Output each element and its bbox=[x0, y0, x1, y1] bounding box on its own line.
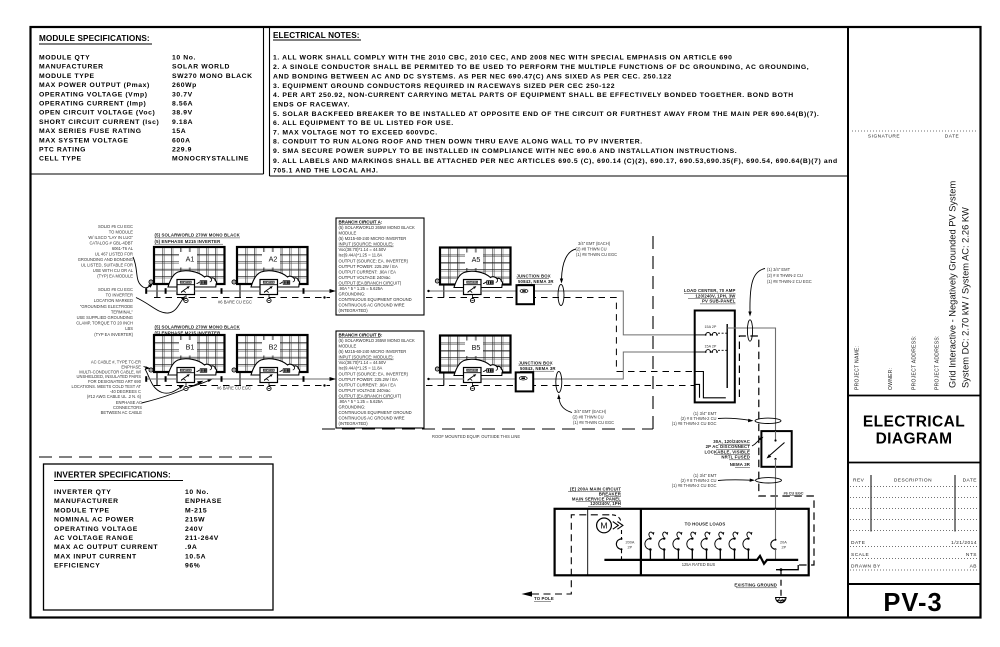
svg-text:(5) SOLARWORLD 270W MONO BLACK: (5) SOLARWORLD 270W MONO BLACK bbox=[155, 324, 241, 329]
grounding lug A1 bbox=[149, 280, 153, 284]
svg-text:10 No.: 10 No. bbox=[172, 55, 196, 62]
svg-text:EXISTING GROUND: EXISTING GROUND bbox=[734, 583, 777, 588]
cable end cap row B bbox=[145, 376, 147, 382]
load center PV sub-panel box bbox=[695, 311, 735, 403]
svg-text:ROOF MOUNTED EQUIP. OUTSIDE TH: ROOF MOUNTED EQUIP. OUTSIDE THIS LINE bbox=[432, 434, 520, 439]
leader to A1 module lug bbox=[133, 257, 150, 288]
svg-text:GROUNDING:: GROUNDING: bbox=[339, 292, 366, 297]
load center bus bbox=[726, 324, 728, 388]
solar module B1 bbox=[154, 335, 225, 375]
svg-text:B5: B5 bbox=[472, 343, 481, 352]
conduit ellipse at load center output bbox=[747, 320, 752, 341]
svg-text:5. SOLAR BACKFEED BREAKER TO B: 5. SOLAR BACKFEED BREAKER TO BE INSTALLE… bbox=[273, 111, 819, 118]
svg-text:UL LISTED, SUITABLE FOR: UL LISTED, SUITABLE FOR bbox=[81, 263, 133, 268]
svg-text:TO MODULE: TO MODULE bbox=[109, 230, 134, 235]
svg-text:ELECTRICAL NOTES:: ELECTRICAL NOTES: bbox=[273, 31, 360, 40]
svg-text:38.9V: 38.9V bbox=[172, 110, 193, 117]
svg-text:GROUNDING AND BONDING: GROUNDING AND BONDING bbox=[78, 257, 133, 262]
utility meter M bbox=[597, 518, 612, 533]
microinverter under A5 bbox=[464, 280, 494, 295]
svg-text:(1) #8 THWN-2 CU EGC: (1) #8 THWN-2 CU EGC bbox=[672, 483, 717, 488]
svg-text:MODULE SPECIFICATIONS:: MODULE SPECIFICATIONS: bbox=[39, 34, 150, 43]
svg-text:OUTPUT CURRENT: .90A / EA: OUTPUT CURRENT: .90A / EA bbox=[339, 269, 397, 274]
svg-text:OUTPUT (SOURCE: EA. INVERTER): OUTPUT (SOURCE: EA. INVERTER) bbox=[339, 371, 409, 376]
svg-text:JUNCTION BOX: JUNCTION BOX bbox=[519, 360, 553, 365]
svg-text:NTS: NTS bbox=[966, 552, 977, 558]
svg-text:B2: B2 bbox=[269, 343, 278, 352]
svg-text:OWNER:: OWNER: bbox=[888, 368, 894, 390]
svg-text:10 No.: 10 No. bbox=[185, 489, 209, 496]
svg-text:TO INVERTER: TO INVERTER bbox=[106, 293, 133, 298]
svg-text:8.56A: 8.56A bbox=[172, 101, 193, 108]
svg-text:CONTINUOUS AC GROUND WIRE: CONTINUOUS AC GROUND WIRE bbox=[339, 303, 405, 308]
svg-text:9. ALL LABELS AND MARKINGS SHA: 9. ALL LABELS AND MARKINGS SHALL BE ATTA… bbox=[273, 158, 838, 165]
svg-text:TO POLE: TO POLE bbox=[534, 596, 554, 601]
svg-text:229.9: 229.9 bbox=[172, 147, 192, 154]
svg-text:BETWEEN AC CABLE: BETWEEN AC CABLE bbox=[101, 410, 143, 415]
svg-text:(5) M215-60-240 MICRO INVERTER: (5) M215-60-240 MICRO INVERTER bbox=[339, 349, 407, 354]
svg-text:4. PER ART 250.92, NON-CURRENT: 4. PER ART 250.92, NON-CURRENT CARRYING … bbox=[273, 92, 794, 99]
svg-text:OUTPUT (SOURCE: EA. INVERTER): OUTPUT (SOURCE: EA. INVERTER) bbox=[339, 258, 409, 263]
svg-text:600A: 600A bbox=[172, 137, 191, 144]
row B bare CU EGC dashed wire bbox=[154, 385, 695, 387]
svg-text:MANUFACTURER: MANUFACTURER bbox=[54, 498, 119, 505]
solar module A5 bbox=[440, 248, 511, 288]
svg-text:AC VOLTAGE RANGE: AC VOLTAGE RANGE bbox=[54, 535, 134, 542]
house load breaker 2 bbox=[663, 550, 665, 560]
module spec box divider bbox=[263, 27, 265, 174]
house load breaker 8 bbox=[747, 550, 749, 560]
leader to B row connector 2 bbox=[190, 381, 209, 387]
junction box B bbox=[516, 372, 534, 391]
ground circle B1 inverter bbox=[184, 386, 188, 390]
svg-text:DRAWN BY: DRAWN BY bbox=[851, 564, 881, 570]
svg-text:3/4" EMT (EACH): 3/4" EMT (EACH) bbox=[578, 241, 611, 246]
svg-text:MODULE QTY: MODULE QTY bbox=[39, 55, 90, 62]
solar module A2 bbox=[237, 247, 308, 287]
svg-text:MONOCRYSTALLINE: MONOCRYSTALLINE bbox=[172, 156, 249, 163]
ground circle B5 inverter bbox=[470, 386, 474, 390]
svg-text:OUTPUT CURRENT: .90A / EA: OUTPUT CURRENT: .90A / EA bbox=[339, 382, 397, 387]
svg-text:MAX AC OUTPUT CURRENT: MAX AC OUTPUT CURRENT bbox=[54, 544, 158, 551]
svg-text:SW270 MONO BLACK: SW270 MONO BLACK bbox=[172, 73, 253, 80]
svg-text:DESCRIPTION: DESCRIPTION bbox=[894, 478, 932, 484]
svg-text:OUTPUT VOLTAGE 240Vac: OUTPUT VOLTAGE 240Vac bbox=[339, 275, 391, 280]
module frame ground wire bbox=[156, 372, 158, 386]
microinverter under B5 bbox=[464, 368, 494, 383]
svg-text:CATALOG # GBL-4DBT: CATALOG # GBL-4DBT bbox=[89, 241, 133, 246]
svg-text:.9A: .9A bbox=[185, 544, 197, 551]
svg-text:OUTPUT POWER: 225.2W / EA: OUTPUT POWER: 225.2W / EA bbox=[339, 377, 399, 382]
svg-text:MAX POWER OUTPUT (Pmax): MAX POWER OUTPUT (Pmax) bbox=[39, 82, 150, 89]
roof boundary dashed line right segment bbox=[322, 428, 653, 430]
svg-text:MAX INPUT CURRENT: MAX INPUT CURRENT bbox=[54, 553, 137, 560]
svg-text:PV-3: PV-3 bbox=[883, 589, 942, 617]
house load breaker 7 bbox=[734, 550, 736, 560]
svg-text:(2) # 8 THWN-2 CU: (2) # 8 THWN-2 CU bbox=[767, 273, 803, 278]
TO POLE arrow bbox=[522, 591, 533, 596]
branch circuit A spec box bbox=[336, 218, 424, 315]
svg-text:15A: 15A bbox=[172, 128, 186, 135]
title block left border bbox=[847, 27, 849, 618]
svg-text:DATE: DATE bbox=[851, 540, 865, 546]
solar module A1 bbox=[154, 247, 225, 287]
svg-text:(5) ENPHASE M215 INVERTER: (5) ENPHASE M215 INVERTER bbox=[155, 239, 222, 244]
module frame ground wire bbox=[443, 285, 445, 298]
svg-text:(TYP EA INVERTER): (TYP EA INVERTER) bbox=[94, 332, 133, 337]
svg-text:SCALE: SCALE bbox=[851, 552, 869, 558]
svg-text:(5) SOLARWORLD 270W MONO BLACK: (5) SOLARWORLD 270W MONO BLACK bbox=[155, 233, 241, 238]
svg-text:(INTEGRATED): (INTEGRATED) bbox=[339, 308, 369, 313]
grounding lug A2 bbox=[232, 280, 236, 284]
svg-text:MODULE TYPE: MODULE TYPE bbox=[54, 507, 110, 514]
svg-text:LOCATION MARKED: LOCATION MARKED bbox=[94, 298, 133, 303]
svg-text:15A 2P: 15A 2P bbox=[705, 325, 717, 329]
svg-text:15A 2P: 15A 2P bbox=[705, 344, 717, 348]
house load breaker 4 bbox=[691, 550, 693, 560]
row A bare CU EGC dashed wire bbox=[154, 298, 695, 372]
svg-text:LOAD CENTER, 70 AMP: LOAD CENTER, 70 AMP bbox=[684, 288, 736, 293]
grounding lug B5 bbox=[435, 367, 439, 371]
svg-text:AND BONDING BETWEEN AC AND DC: AND BONDING BETWEEN AC AND DC SYSTEMS. A… bbox=[273, 73, 672, 80]
svg-text:9. SMA SECURE POWER SUPPLY TO: 9. SMA SECURE POWER SUPPLY TO BE INSTALL… bbox=[273, 148, 737, 155]
svg-text:7. MAX VOLTAGE NOT TO EXCEED 6: 7. MAX VOLTAGE NOT TO EXCEED 600VDC. bbox=[273, 129, 438, 136]
svg-text:A5: A5 bbox=[472, 255, 481, 264]
svg-text:(1) #8 THWN CU EGC: (1) #8 THWN CU EGC bbox=[573, 420, 614, 425]
house load breaker 5 bbox=[706, 550, 708, 560]
connector bars row A bbox=[165, 288, 167, 294]
svg-text:OUTPUT (EA BRANCH CIRCUIT): OUTPUT (EA BRANCH CIRCUIT) bbox=[339, 394, 402, 399]
svg-text:System DC: 2.70 kW / System AC: System DC: 2.70 kW / System AC: 2.26 KW bbox=[961, 207, 971, 388]
svg-text:USE SUPPLIED GROUNDING: USE SUPPLIED GROUNDING bbox=[77, 315, 133, 320]
svg-text:BRANCH CIRCUIT A:: BRANCH CIRCUIT A: bbox=[339, 219, 383, 224]
svg-text:A2: A2 bbox=[269, 255, 278, 264]
svg-text:MAX SYSTEM VOLTAGE: MAX SYSTEM VOLTAGE bbox=[39, 137, 128, 144]
ground electrode symbol bbox=[776, 598, 786, 603]
svg-text:JUNCTION BOX: JUNCTION BOX bbox=[517, 273, 551, 278]
house load breaker 3 bbox=[677, 550, 679, 560]
svg-text:(1) #8 THWN-2 CU EGC: (1) #8 THWN-2 CU EGC bbox=[672, 421, 717, 426]
svg-text:Voc(38.70)*1.14 = 44.50V: Voc(38.70)*1.14 = 44.50V bbox=[339, 360, 387, 365]
svg-text:50843, NEMA 3R: 50843, NEMA 3R bbox=[518, 279, 554, 284]
leader to B row connector 1 bbox=[142, 384, 199, 404]
svg-text:(#12 AWG CABLE UL .2 N. 6): (#12 AWG CABLE UL .2 N. 6) bbox=[87, 394, 142, 399]
svg-text:10.5A: 10.5A bbox=[185, 553, 206, 560]
svg-text:SIGNATURE: SIGNATURE bbox=[868, 134, 900, 140]
svg-text:CONTINUOUS EQUIPMENT GROUND: CONTINUOUS EQUIPMENT GROUND bbox=[339, 297, 412, 302]
ground circle B2 inverter bbox=[267, 386, 271, 390]
leader to B1 module lug bbox=[144, 366, 147, 369]
svg-text:Grid Interactive - Negatively: Grid Interactive - Negatively Grounded P… bbox=[948, 181, 958, 388]
module frame ground wire bbox=[156, 284, 158, 298]
svg-text:OPERATING VOLTAGE: OPERATING VOLTAGE bbox=[54, 526, 138, 533]
microinverter under A2 bbox=[260, 280, 290, 295]
svg-text:INVERTER QTY: INVERTER QTY bbox=[54, 489, 111, 496]
house load breaker 6 bbox=[719, 550, 721, 560]
svg-text:MODULE TYPE: MODULE TYPE bbox=[39, 73, 95, 80]
svg-text:CELL TYPE: CELL TYPE bbox=[39, 156, 82, 163]
svg-text:ELECTRICAL: ELECTRICAL bbox=[863, 414, 965, 431]
meter to breaker wire bbox=[621, 530, 623, 539]
grounding lug B1 bbox=[149, 368, 153, 372]
AC output wire from load center bbox=[727, 328, 775, 431]
svg-text:ENDS OF RACEWAY.: ENDS OF RACEWAY. bbox=[273, 102, 350, 109]
svg-text:96%: 96% bbox=[185, 563, 200, 570]
svg-text:215W: 215W bbox=[185, 517, 205, 524]
svg-text:DATE: DATE bbox=[945, 134, 959, 140]
svg-text:Voc(38.70)*1.14 = 44.50V: Voc(38.70)*1.14 = 44.50V bbox=[339, 247, 387, 252]
svg-text:120/240V, 1PH: 120/240V, 1PH bbox=[590, 501, 621, 506]
svg-text:20A: 20A bbox=[780, 541, 787, 545]
ground circle A2 inverter bbox=[267, 298, 271, 302]
svg-text:PTC RATING: PTC RATING bbox=[39, 147, 86, 154]
svg-text:CONTINUOUS AC GROUND WIRE: CONTINUOUS AC GROUND WIRE bbox=[339, 416, 405, 421]
svg-text:#6 CU EGC: #6 CU EGC bbox=[784, 492, 804, 496]
leader to A1 inverter ground bbox=[136, 298, 183, 314]
microinverter under B2 bbox=[260, 368, 290, 383]
title block divider bbox=[848, 395, 981, 397]
svg-text:MAX SERIES FUSE RATING: MAX SERIES FUSE RATING bbox=[39, 128, 142, 135]
roof boundary vertical dashed line bbox=[652, 236, 654, 429]
svg-text:PROJECT NAME:: PROJECT NAME: bbox=[855, 346, 861, 390]
svg-text:A1: A1 bbox=[186, 255, 195, 264]
svg-text:PROJECT ADDRESS:: PROJECT ADDRESS: bbox=[912, 335, 918, 390]
svg-text:W/ ILSCO "LAY IN LUG": W/ ILSCO "LAY IN LUG" bbox=[88, 235, 133, 240]
row B AC branch cable bbox=[147, 352, 695, 379]
load center ground wires bbox=[695, 372, 726, 398]
ground wire to electrode bbox=[780, 570, 782, 597]
svg-text:OPERATING VOLTAGE (Vmp): OPERATING VOLTAGE (Vmp) bbox=[39, 91, 148, 98]
svg-text:(1) #8 THWN-2 CU EGC: (1) #8 THWN-2 CU EGC bbox=[767, 279, 812, 284]
svg-text:(1) 3/4" EMT: (1) 3/4" EMT bbox=[767, 267, 791, 272]
svg-text:(5) SOLARWORLD 265W MONO BLACK: (5) SOLARWORLD 265W MONO BLACK bbox=[339, 225, 416, 230]
cable end cap row A bbox=[145, 288, 147, 294]
svg-text:30.7V: 30.7V bbox=[172, 91, 193, 98]
svg-text:3/4" EMT (EACH): 3/4" EMT (EACH) bbox=[574, 409, 607, 414]
20A 2P PV breaker bbox=[775, 509, 777, 540]
microinverter under A1 bbox=[177, 280, 207, 295]
svg-text:OUTPUT VOLTAGE 240Vac: OUTPUT VOLTAGE 240Vac bbox=[339, 388, 391, 393]
svg-text:2P: 2P bbox=[628, 545, 633, 549]
svg-text:PV SUB-PANEL: PV SUB-PANEL bbox=[702, 299, 736, 304]
svg-text:B1: B1 bbox=[186, 343, 195, 352]
svg-text:(5) SOLARWORLD 265W MONO BLACK: (5) SOLARWORLD 265W MONO BLACK bbox=[339, 338, 416, 343]
svg-text:OUTPUT (EA BRANCH CIRCUIT): OUTPUT (EA BRANCH CIRCUIT) bbox=[339, 281, 402, 286]
utility service dashed wire from pole bbox=[532, 515, 612, 594]
svg-text:DATE: DATE bbox=[963, 478, 977, 484]
svg-text:AB: AB bbox=[970, 564, 977, 570]
svg-text:SOLAR WORLD: SOLAR WORLD bbox=[172, 64, 230, 71]
grounding lug B2 bbox=[232, 368, 236, 372]
svg-text:OPEN CIRCUIT VOLTAGE (Voc): OPEN CIRCUIT VOLTAGE (Voc) bbox=[39, 110, 155, 117]
conduit ellipse below disconnect bbox=[756, 478, 782, 483]
svg-text:.90A * 5 * 1.25 = 5.625A: .90A * 5 * 1.25 = 5.625A bbox=[339, 286, 384, 291]
svg-text:EFFICIENCY: EFFICIENCY bbox=[54, 563, 100, 570]
svg-text:(1) #8 THWN CU EGC: (1) #8 THWN CU EGC bbox=[576, 252, 617, 257]
svg-text:705.1 AND THE LOCAL AHJ.: 705.1 AND THE LOCAL AHJ. bbox=[273, 167, 379, 174]
svg-text:LBS: LBS bbox=[125, 326, 133, 331]
svg-text:9.18A: 9.18A bbox=[172, 119, 193, 126]
svg-text:3. EQUIPMENT GROUND CONDUCTORS: 3. EQUIPMENT GROUND CONDUCTORS REQUIRED … bbox=[273, 83, 615, 90]
125A rated bus bbox=[604, 556, 798, 564]
conduit ellipse row A bbox=[558, 285, 564, 306]
svg-text:MODULE: MODULE bbox=[339, 231, 357, 236]
solar module B5 bbox=[440, 336, 511, 376]
AC disconnect box bbox=[761, 431, 791, 467]
svg-text:(2) #8 THWN CU: (2) #8 THWN CU bbox=[573, 415, 604, 420]
module frame ground wire bbox=[443, 373, 445, 386]
svg-text:200A: 200A bbox=[626, 541, 635, 545]
svg-text:NOMINAL AC POWER: NOMINAL AC POWER bbox=[54, 517, 134, 524]
svg-text:125A RATED BUS: 125A RATED BUS bbox=[682, 562, 716, 567]
microinverter under B1 bbox=[177, 368, 207, 383]
svg-text:GROUNDING:: GROUNDING: bbox=[339, 405, 366, 410]
svg-text:SOLID #8 CU EGC: SOLID #8 CU EGC bbox=[98, 287, 133, 292]
ground circle A1 inverter bbox=[184, 298, 188, 302]
roof boundary dashed line left segment bbox=[39, 456, 277, 458]
svg-text:OPERATING CURRENT (Imp): OPERATING CURRENT (Imp) bbox=[39, 101, 146, 108]
module frame ground wire bbox=[239, 372, 241, 386]
conduit ellipse above disconnect bbox=[755, 418, 781, 423]
svg-text:6. ALL EQUIPMENT TO BE UL LIST: 6. ALL EQUIPMENT TO BE UL LISTED FOR USE… bbox=[273, 120, 454, 127]
electrical notes box border bbox=[269, 27, 271, 176]
svg-text:#6 BARE CU EGC: #6 BARE CU EGC bbox=[217, 386, 251, 391]
svg-text:(TYP) EA MODULE: (TYP) EA MODULE bbox=[97, 274, 133, 279]
revision table bbox=[870, 475, 872, 532]
svg-text:OUTPUT POWER: 225.2W / EA: OUTPUT POWER: 225.2W / EA bbox=[339, 264, 399, 269]
branch circuit B spec box bbox=[336, 331, 424, 428]
svg-text:INPUT (SOURCE: MODULE):: INPUT (SOURCE: MODULE): bbox=[339, 355, 394, 360]
svg-text:ENPHASE: ENPHASE bbox=[185, 498, 222, 505]
svg-text:CLAMP, TORQUE TO 20 INCH: CLAMP, TORQUE TO 20 INCH bbox=[76, 321, 133, 326]
EGC dashed from load center to main panel bbox=[739, 336, 814, 565]
svg-text:211-264V: 211-264V bbox=[185, 535, 219, 542]
svg-text:8. CONDUIT TO RUN ALONG ROOF A: 8. CONDUIT TO RUN ALONG ROOF AND THEN DO… bbox=[273, 139, 643, 146]
svg-text:260Wp: 260Wp bbox=[172, 82, 197, 89]
svg-text:6061-T6 AL: 6061-T6 AL bbox=[112, 246, 134, 251]
svg-text:M-215: M-215 bbox=[185, 507, 207, 514]
leader to B1 inverter ground bbox=[145, 369, 180, 393]
svg-text:Isc(9.44A)*1.25 = 11.8A: Isc(9.44A)*1.25 = 11.8A bbox=[339, 366, 383, 371]
house load breaker 1 bbox=[649, 550, 651, 560]
svg-text:NRTL FUSED: NRTL FUSED bbox=[721, 455, 750, 460]
svg-text:"GROUNDING ELECTRODE: "GROUNDING ELECTRODE bbox=[80, 304, 133, 309]
svg-text:CONTINUOUS EQUIPMENT GROUND: CONTINUOUS EQUIPMENT GROUND bbox=[339, 410, 412, 415]
ground circle A5 inverter bbox=[470, 298, 474, 302]
svg-text:240V: 240V bbox=[185, 526, 203, 533]
svg-text:MODULE: MODULE bbox=[339, 344, 357, 349]
svg-text:(5) M215-60-240 MICRO INVERTER: (5) M215-60-240 MICRO INVERTER bbox=[339, 236, 407, 241]
svg-text:TERMINAL": TERMINAL" bbox=[111, 309, 134, 314]
svg-text:INPUT (SOURCE: MODULE):: INPUT (SOURCE: MODULE): bbox=[339, 242, 394, 247]
grounding lug A5 bbox=[435, 279, 439, 283]
module frame ground wire bbox=[239, 284, 241, 298]
svg-text:MANUFACTURER: MANUFACTURER bbox=[39, 64, 104, 71]
svg-text:2P: 2P bbox=[782, 545, 787, 549]
row A AC branch cable bbox=[147, 291, 695, 335]
solar module B2 bbox=[237, 335, 308, 375]
svg-text:(INTEGRATED): (INTEGRATED) bbox=[339, 421, 369, 426]
inverter specifications box bbox=[44, 464, 274, 610]
svg-text:(2) #8 THWN CU: (2) #8 THWN CU bbox=[576, 246, 607, 251]
svg-text:SOLID #6 CU EGC: SOLID #6 CU EGC bbox=[98, 224, 133, 229]
main service panel box bbox=[555, 509, 809, 576]
svg-text:NEMA 3R: NEMA 3R bbox=[730, 462, 751, 467]
signature dotted line bbox=[852, 130, 977, 132]
svg-text:PROJECT ADDRESS:: PROJECT ADDRESS: bbox=[935, 335, 941, 390]
svg-text:Isc(9.44A)*1.25 = 11.8A: Isc(9.44A)*1.25 = 11.8A bbox=[339, 253, 383, 258]
svg-text:SHORT CIRCUIT CURRENT (Isc): SHORT CIRCUIT CURRENT (Isc) bbox=[39, 119, 159, 126]
svg-text:DIAGRAM: DIAGRAM bbox=[876, 431, 953, 448]
svg-text:M: M bbox=[600, 520, 607, 530]
svg-text:2. A SINGLE CONDUCTOR SHALL BE: 2. A SINGLE CONDUCTOR SHALL BE PERMITED … bbox=[273, 64, 809, 71]
svg-text:TO HOUSE LOADS: TO HOUSE LOADS bbox=[685, 522, 726, 527]
svg-text:UL 467 LISTED FOR: UL 467 LISTED FOR bbox=[95, 252, 133, 257]
200A 2P main breaker bbox=[616, 539, 621, 549]
svg-text:REV: REV bbox=[853, 478, 865, 484]
svg-text:#6 BARE CU EGC: #6 BARE CU EGC bbox=[218, 299, 252, 304]
svg-text:1. ALL WORK SHALL COMPLY WITH: 1. ALL WORK SHALL COMPLY WITH THE 2010 C… bbox=[273, 55, 733, 62]
svg-text:1/21/2014: 1/21/2014 bbox=[951, 540, 977, 546]
svg-text:INVERTER SPECIFICATIONS:: INVERTER SPECIFICATIONS: bbox=[54, 471, 171, 480]
junction box A bbox=[517, 285, 535, 304]
svg-text:.90A * 5 * 1.25 = 5.625A: .90A * 5 * 1.25 = 5.625A bbox=[339, 399, 384, 404]
conduit ellipse row B bbox=[556, 372, 562, 393]
connector bars row B bbox=[165, 376, 167, 382]
svg-text:USE WITH CU OR AL: USE WITH CU OR AL bbox=[93, 268, 134, 273]
svg-text:BRANCH CIRCUIT B:: BRANCH CIRCUIT B: bbox=[339, 332, 383, 337]
svg-text:50843, NEMA 3R: 50843, NEMA 3R bbox=[520, 366, 556, 371]
